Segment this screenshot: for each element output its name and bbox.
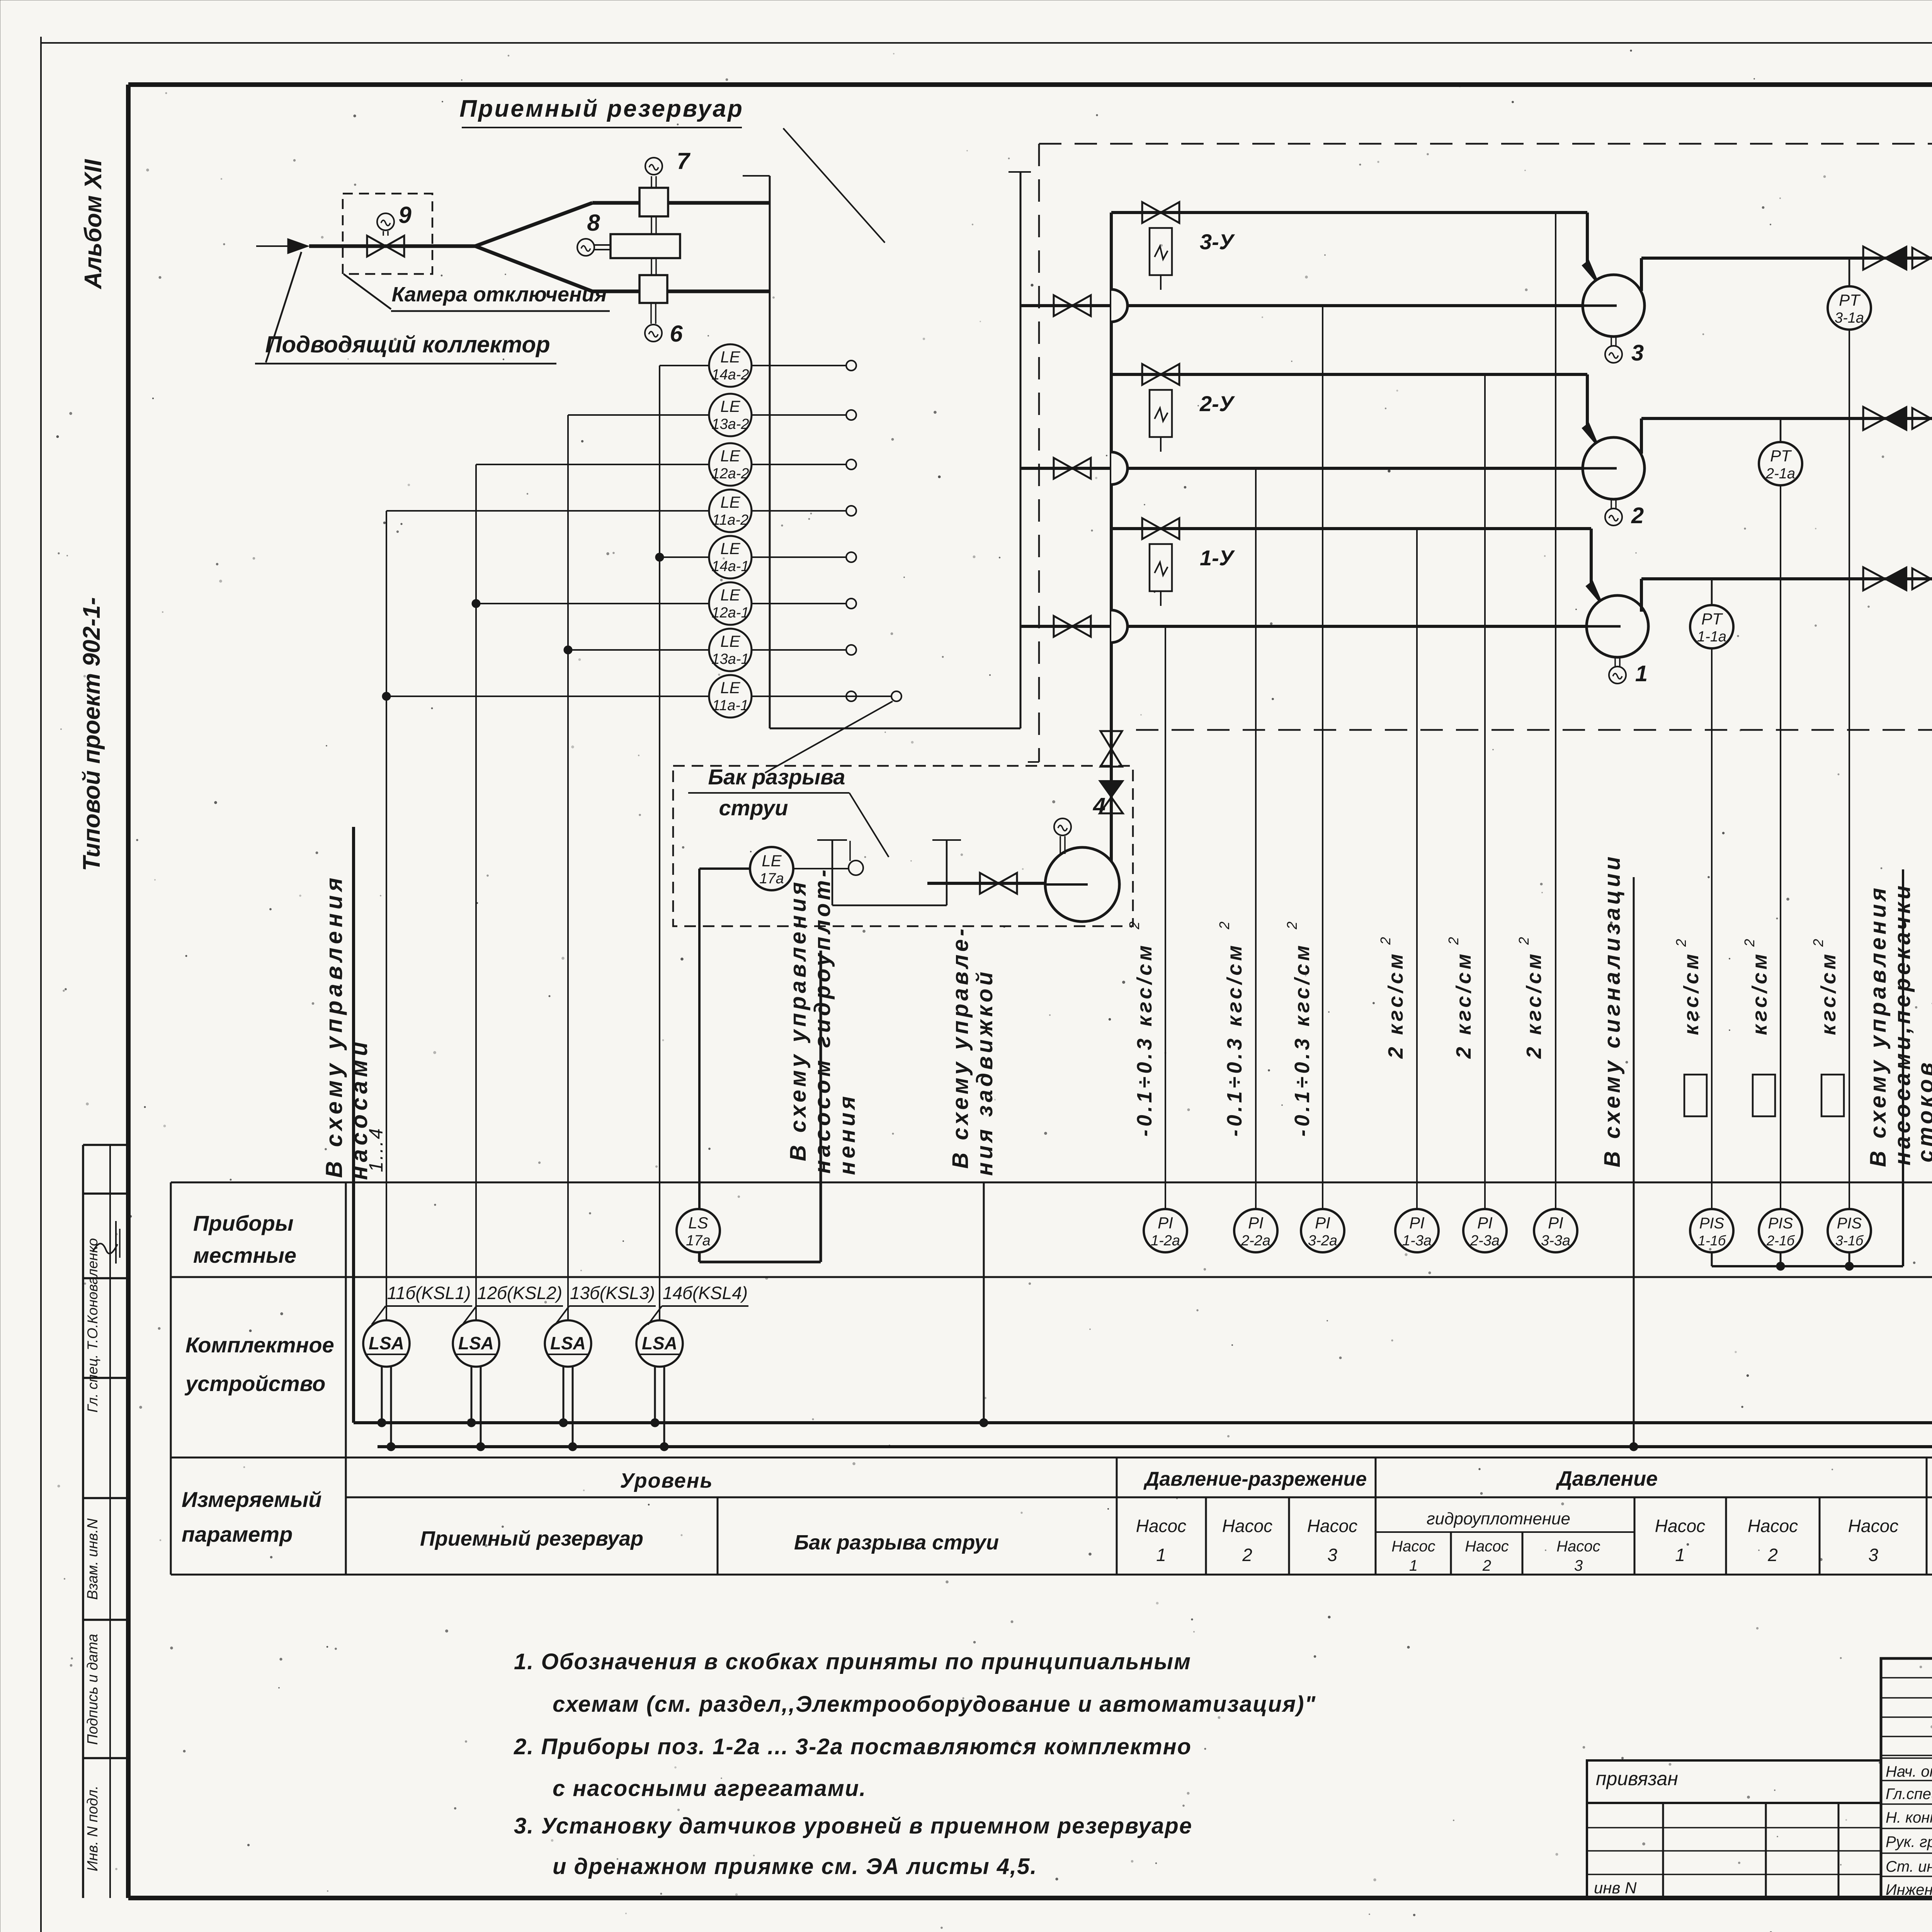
- svg-text:Насос: Насос: [1655, 1516, 1705, 1536]
- svg-text:8: 8: [587, 210, 600, 236]
- svg-text:PT: PT: [1770, 447, 1792, 465]
- svg-text:2: 2: [1516, 937, 1532, 945]
- svg-text:1-1а: 1-1а: [1697, 629, 1726, 645]
- svg-text:2: 2: [1482, 1557, 1491, 1574]
- svg-text:3: 3: [1327, 1545, 1337, 1565]
- svg-text:LE: LE: [720, 493, 740, 511]
- svg-text:LSA: LSA: [458, 1333, 494, 1353]
- svg-text:LE: LE: [720, 447, 740, 465]
- svg-text:Насос: Насос: [1307, 1516, 1357, 1536]
- svg-text:гидроуплотнение: гидроуплотнение: [1427, 1509, 1570, 1528]
- svg-text:LE: LE: [720, 586, 740, 604]
- svg-text:Насос: Насос: [1136, 1516, 1186, 1536]
- svg-text:Взам. инв.N: Взам. инв.N: [85, 1518, 101, 1600]
- svg-text:2-У: 2-У: [1199, 391, 1235, 416]
- svg-text:кгс/см: кгс/см: [1748, 951, 1771, 1035]
- svg-text:12а-1: 12а-1: [711, 605, 749, 621]
- svg-text:Давление-разрежение: Давление-разрежение: [1143, 1468, 1367, 1490]
- svg-text:Насос: Насос: [1222, 1516, 1272, 1536]
- svg-text:Приборы: Приборы: [193, 1211, 294, 1235]
- svg-text:6: 6: [670, 321, 683, 347]
- svg-text:3-1а: 3-1а: [1835, 310, 1864, 326]
- svg-text:ния задвижкой: ния задвижкой: [972, 969, 997, 1176]
- svg-text:13б(KSL3): 13б(KSL3): [570, 1283, 655, 1303]
- svg-text:устройство: устройство: [184, 1371, 325, 1396]
- svg-text:13а-2: 13а-2: [711, 416, 749, 432]
- svg-text:2: 2: [1673, 939, 1689, 947]
- svg-text:и дренажном приямке см. ЭА: и дренажном приямке см. ЭА листы 4,5.: [553, 1854, 1037, 1879]
- svg-text:Насос: Насос: [1556, 1538, 1600, 1555]
- svg-text:2: 2: [1631, 503, 1644, 528]
- svg-text:2: 2: [1742, 939, 1757, 947]
- svg-text:14б(KSL4): 14б(KSL4): [663, 1283, 748, 1303]
- svg-text:схемам (см. раздел,,Электрообо: схемам (см. раздел,,Электрооборудование …: [553, 1692, 1316, 1717]
- svg-text:-0.1÷0.3 кгс/см: -0.1÷0.3 кгс/см: [1133, 942, 1156, 1137]
- svg-text:Подводящий коллектор: Подводящий коллектор: [265, 332, 550, 357]
- svg-text:3-У: 3-У: [1200, 230, 1235, 254]
- svg-text:2: 2: [1126, 922, 1142, 930]
- svg-text:Комплектное: Комплектное: [185, 1333, 334, 1357]
- svg-text:местные: местные: [193, 1243, 296, 1267]
- svg-text:7: 7: [677, 148, 690, 174]
- svg-text:3. Установку датчиков уровне: 3. Установку датчиков уровней в приемном…: [514, 1813, 1192, 1838]
- svg-text:PIS: PIS: [1768, 1215, 1793, 1232]
- svg-text:1: 1: [1409, 1557, 1418, 1574]
- svg-text:Инв. N подл.: Инв. N подл.: [85, 1786, 101, 1871]
- svg-text:параметр: параметр: [182, 1522, 293, 1546]
- svg-text:17а: 17а: [686, 1233, 710, 1249]
- svg-text:11а-1: 11а-1: [712, 697, 748, 714]
- svg-text:Приемный резервуар: Приемный резервуар: [459, 95, 744, 122]
- svg-text:Уровень: Уровень: [620, 1469, 713, 1492]
- svg-text:В схему управления: В схему управления: [321, 874, 347, 1178]
- svg-text:Типовой проект 902-1-: Типовой проект 902-1-: [78, 597, 105, 871]
- svg-text:1. Обозначения в скобках при: 1. Обозначения в скобках приняты по прин…: [514, 1649, 1191, 1674]
- svg-text:привязан: привязан: [1596, 1768, 1678, 1789]
- svg-text:насосом гидроуплот-: насосом гидроуплот-: [810, 867, 835, 1174]
- svg-text:2 кгс/см: 2 кгс/см: [1384, 951, 1407, 1059]
- svg-text:1: 1: [1635, 661, 1648, 686]
- svg-text:Гл.спец.: Гл.спец.: [1886, 1786, 1932, 1803]
- svg-text:2-2а: 2-2а: [1241, 1233, 1270, 1249]
- svg-text:2-3а: 2-3а: [1470, 1233, 1500, 1249]
- svg-text:1...4: 1...4: [365, 1127, 387, 1172]
- svg-text:1-1б: 1-1б: [1698, 1233, 1726, 1248]
- svg-text:Насос: Насос: [1848, 1516, 1898, 1536]
- svg-text:3-3а: 3-3а: [1541, 1233, 1570, 1249]
- svg-text:Насос: Насос: [1465, 1538, 1509, 1555]
- svg-text:LE: LE: [720, 397, 740, 415]
- svg-text:2: 2: [1378, 937, 1393, 945]
- svg-text:PIS: PIS: [1699, 1215, 1725, 1232]
- svg-text:11а-2: 11а-2: [712, 512, 748, 528]
- svg-text:2: 2: [1242, 1545, 1252, 1565]
- svg-text:2: 2: [1216, 922, 1232, 930]
- svg-text:3: 3: [1868, 1545, 1878, 1565]
- svg-text:В схему управле-: В схему управле-: [948, 925, 973, 1168]
- svg-text:2: 2: [1767, 1545, 1778, 1565]
- svg-text:PI: PI: [1409, 1214, 1425, 1232]
- svg-text:PI: PI: [1548, 1214, 1563, 1232]
- svg-text:9: 9: [398, 202, 412, 228]
- svg-text:PT: PT: [1839, 291, 1861, 309]
- svg-text:2 кгс/см: 2 кгс/см: [1452, 951, 1475, 1059]
- svg-text:-0.1÷0.3 кгс/см: -0.1÷0.3 кгс/см: [1291, 942, 1314, 1137]
- svg-text:4: 4: [1093, 793, 1105, 818]
- svg-text:В схему сигнализации: В схему сигнализации: [1600, 854, 1625, 1167]
- svg-text:2: 2: [1284, 922, 1300, 930]
- svg-text:LSA: LSA: [550, 1333, 586, 1353]
- svg-text:3: 3: [1574, 1557, 1583, 1574]
- svg-text:Инженер: Инженер: [1886, 1881, 1932, 1898]
- svg-text:11б(KSL1): 11б(KSL1): [387, 1283, 471, 1303]
- svg-text:Гл. спец. Т.О.Коноваленко: Гл. спец. Т.О.Коноваленко: [85, 1238, 100, 1413]
- svg-text:LSA: LSA: [642, 1333, 677, 1353]
- svg-text:Измеряемый: Измеряемый: [182, 1487, 321, 1512]
- svg-text:LE: LE: [762, 852, 782, 870]
- svg-text:Приемный резервуар: Приемный резервуар: [420, 1527, 643, 1550]
- svg-text:1: 1: [1156, 1545, 1166, 1565]
- svg-text:Бак разрыва: Бак разрыва: [708, 765, 845, 789]
- svg-text:Ст. инж.: Ст. инж.: [1886, 1858, 1932, 1875]
- svg-text:PIS: PIS: [1837, 1215, 1862, 1232]
- svg-text:12а-2: 12а-2: [711, 466, 749, 482]
- svg-text:нения: нения: [835, 1093, 860, 1175]
- svg-text:кгс/см: кгс/см: [1680, 951, 1703, 1035]
- svg-text:PI: PI: [1477, 1214, 1493, 1232]
- svg-text:17а: 17а: [759, 871, 784, 887]
- svg-text:Альбом XII: Альбом XII: [80, 159, 107, 290]
- svg-text:LS: LS: [688, 1214, 708, 1232]
- svg-text:3-1б: 3-1б: [1835, 1233, 1864, 1248]
- svg-text:3°С: 3°С: [1930, 1123, 1932, 1162]
- svg-text:PT: PT: [1701, 610, 1723, 628]
- svg-text:насосами,перекачки: насосами,перекачки: [1890, 883, 1915, 1165]
- svg-text:2-1а: 2-1а: [1765, 466, 1795, 482]
- svg-text:2: 2: [1446, 937, 1461, 945]
- svg-text:2-1б: 2-1б: [1766, 1233, 1795, 1248]
- svg-text:Н. контр.: Н. контр.: [1886, 1809, 1932, 1826]
- svg-text:2. Приборы поз. 1-2а ... 3-2а: 2. Приборы поз. 1-2а ... 3-2а поставляют…: [514, 1734, 1192, 1759]
- svg-text:В схему управления: В схему управления: [786, 879, 811, 1161]
- svg-text:инв N: инв N: [1594, 1879, 1637, 1897]
- svg-text:1-2а: 1-2а: [1151, 1233, 1180, 1249]
- svg-text:стоков: стоков: [1913, 1060, 1932, 1162]
- svg-text:2 кгс/см: 2 кгс/см: [1522, 951, 1546, 1059]
- svg-text:12б(KSL2): 12б(KSL2): [477, 1283, 562, 1303]
- svg-text:Давление: Давление: [1556, 1467, 1658, 1490]
- svg-text:1-3а: 1-3а: [1402, 1233, 1432, 1249]
- svg-text:Нач. отд.: Нач. отд.: [1886, 1763, 1932, 1780]
- svg-text:13а-1: 13а-1: [711, 651, 749, 667]
- svg-text:Подпись и дата: Подпись и дата: [85, 1634, 101, 1745]
- svg-text:LE: LE: [720, 348, 740, 366]
- svg-text:3: 3: [1631, 340, 1644, 366]
- svg-text:Насос: Насос: [1391, 1538, 1435, 1555]
- svg-text:PI: PI: [1248, 1214, 1264, 1232]
- svg-text:14а-1: 14а-1: [711, 558, 749, 575]
- svg-text:Рук. гр.: Рук. гр.: [1886, 1833, 1932, 1850]
- svg-text:Насос: Насос: [1748, 1516, 1798, 1536]
- svg-text:3-2а: 3-2а: [1308, 1233, 1337, 1249]
- svg-text:Бак разрыва струи: Бак разрыва струи: [794, 1531, 999, 1554]
- svg-text:PI: PI: [1315, 1214, 1330, 1232]
- svg-text:LE: LE: [720, 632, 740, 650]
- svg-text:1-У: 1-У: [1200, 546, 1235, 570]
- svg-text:-0.1÷0.3 кгс/см: -0.1÷0.3 кгс/см: [1223, 942, 1246, 1137]
- svg-text:1: 1: [1675, 1545, 1685, 1565]
- svg-text:LE: LE: [720, 539, 740, 558]
- svg-text:14а-2: 14а-2: [711, 367, 749, 383]
- svg-text:PI: PI: [1158, 1214, 1173, 1232]
- svg-text:2: 2: [1810, 939, 1826, 947]
- svg-text:струи: струи: [719, 796, 788, 820]
- svg-text:LE: LE: [720, 679, 740, 697]
- svg-text:кгс/см: кгс/см: [1817, 951, 1840, 1035]
- svg-text:LSA: LSA: [369, 1333, 404, 1353]
- svg-text:с насосными агрегатами.: с насосными агрегатами.: [553, 1776, 866, 1801]
- svg-text:В схему управления: В схему управления: [1866, 885, 1891, 1167]
